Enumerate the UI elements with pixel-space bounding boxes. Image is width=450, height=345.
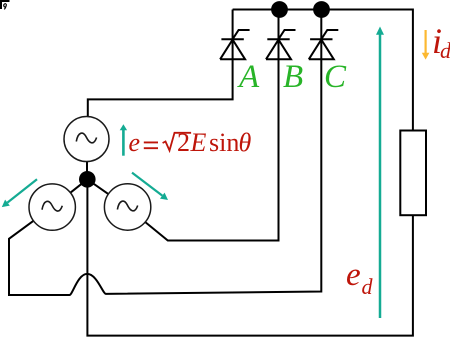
svg-text:sin: sin [209,128,239,157]
svg-text:e: e [346,257,361,293]
svg-text:B: B [283,59,303,95]
svg-text:A: A [237,59,260,95]
svg-text:E: E [190,128,207,157]
svg-text:2: 2 [177,128,190,157]
svg-text:d: d [362,274,374,299]
svg-text:e: e [129,128,141,157]
svg-text:θ: θ [239,128,252,157]
svg-text:d: d [440,38,450,63]
svg-text:C: C [324,59,347,95]
